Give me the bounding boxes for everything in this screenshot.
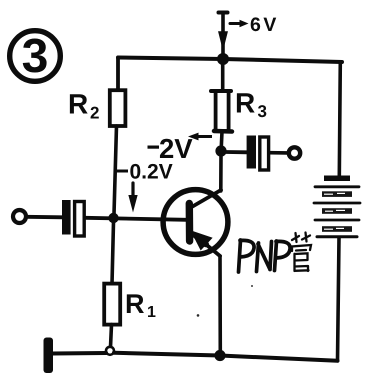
transistor Q1 emitter lead — [194, 235, 220, 257]
transistor Q1 base bar — [186, 204, 194, 242]
ink speck — [197, 314, 200, 317]
battery long plate — [314, 202, 360, 205]
battery long plate (bottom) — [317, 235, 357, 238]
wire: emitter down to rail — [218, 256, 222, 352]
wire: right vertical from rail to battery — [339, 62, 340, 176]
resistor R2 — [110, 90, 126, 126]
label R1 — [127, 294, 156, 317]
battery short plate — [322, 226, 352, 232]
capacitor C1 hollow plate — [75, 202, 85, 237]
resistor R3 — [216, 91, 229, 131]
transistor Q1 body circle — [163, 190, 228, 255]
annotation glyph: 管 — [292, 233, 311, 272]
wire: battery bottom to bottom rail — [338, 238, 340, 361]
wire: collector node to C2 — [226, 150, 247, 154]
wire: rail junction down to R3 — [221, 62, 225, 91]
wire: -6V feed — [221, 13, 225, 58]
resistor R1 — [104, 284, 120, 325]
wire: C2 to output terminal — [269, 151, 287, 155]
arrow: base current (down) — [129, 183, 137, 211]
wire: collector vertical — [219, 155, 223, 191]
node: top junction — [217, 53, 229, 65]
wire: input terminal to C1 — [27, 215, 64, 219]
wire: top rail — [118, 58, 342, 63]
label -2V with left arrow — [148, 133, 213, 158]
battery plate (top thick) — [324, 176, 350, 182]
transistor Q1 collector lead — [193, 190, 222, 207]
capacitor C1 (input coupling) solid plate — [62, 200, 71, 235]
wire: left drop from rail to R2 — [116, 58, 120, 92]
wire: bottom rail middle — [114, 353, 220, 356]
battery short plate — [322, 191, 352, 197]
node: bottom open junction — [106, 347, 114, 355]
input terminal — [13, 210, 26, 223]
battery long plate — [315, 185, 359, 188]
capacitor C2 hollow plate — [260, 137, 269, 170]
wire: bottom rail right — [220, 356, 338, 361]
wire: bottom rail left — [52, 351, 106, 356]
arrow: current into -6V node (down) — [219, 32, 227, 48]
figure number 3 (circled) — [10, 31, 61, 82]
wire: C1 to base node and on to transistor base — [86, 218, 187, 220]
battery long plate — [315, 219, 359, 222]
label -6V with right arrow — [230, 17, 276, 31]
output terminal — [289, 147, 300, 158]
node: base junction — [108, 213, 118, 223]
ink speck — [251, 285, 253, 287]
transistor Q1 emitter arrow (PNP, points to base) — [193, 233, 210, 249]
battery short plate — [322, 208, 352, 214]
label R2 — [70, 94, 99, 118]
label R3 — [237, 93, 266, 117]
power terminal -6V tick — [219, 11, 228, 15]
wire: R1 bottom lead — [111, 325, 112, 347]
ground bar — [44, 338, 54, 374]
node: collector junction — [215, 145, 226, 156]
annotation PNP tube (handwritten) — [239, 240, 291, 272]
wire: base node down to R1 — [112, 222, 114, 284]
capacitor C2 (output coupling) solid plate — [247, 136, 256, 169]
wire: R3 bottom lead — [220, 132, 224, 148]
node: emitter-rail junction — [214, 350, 225, 361]
label -0.2V — [117, 164, 173, 179]
wire: R2 bottom to base node — [114, 126, 117, 214]
